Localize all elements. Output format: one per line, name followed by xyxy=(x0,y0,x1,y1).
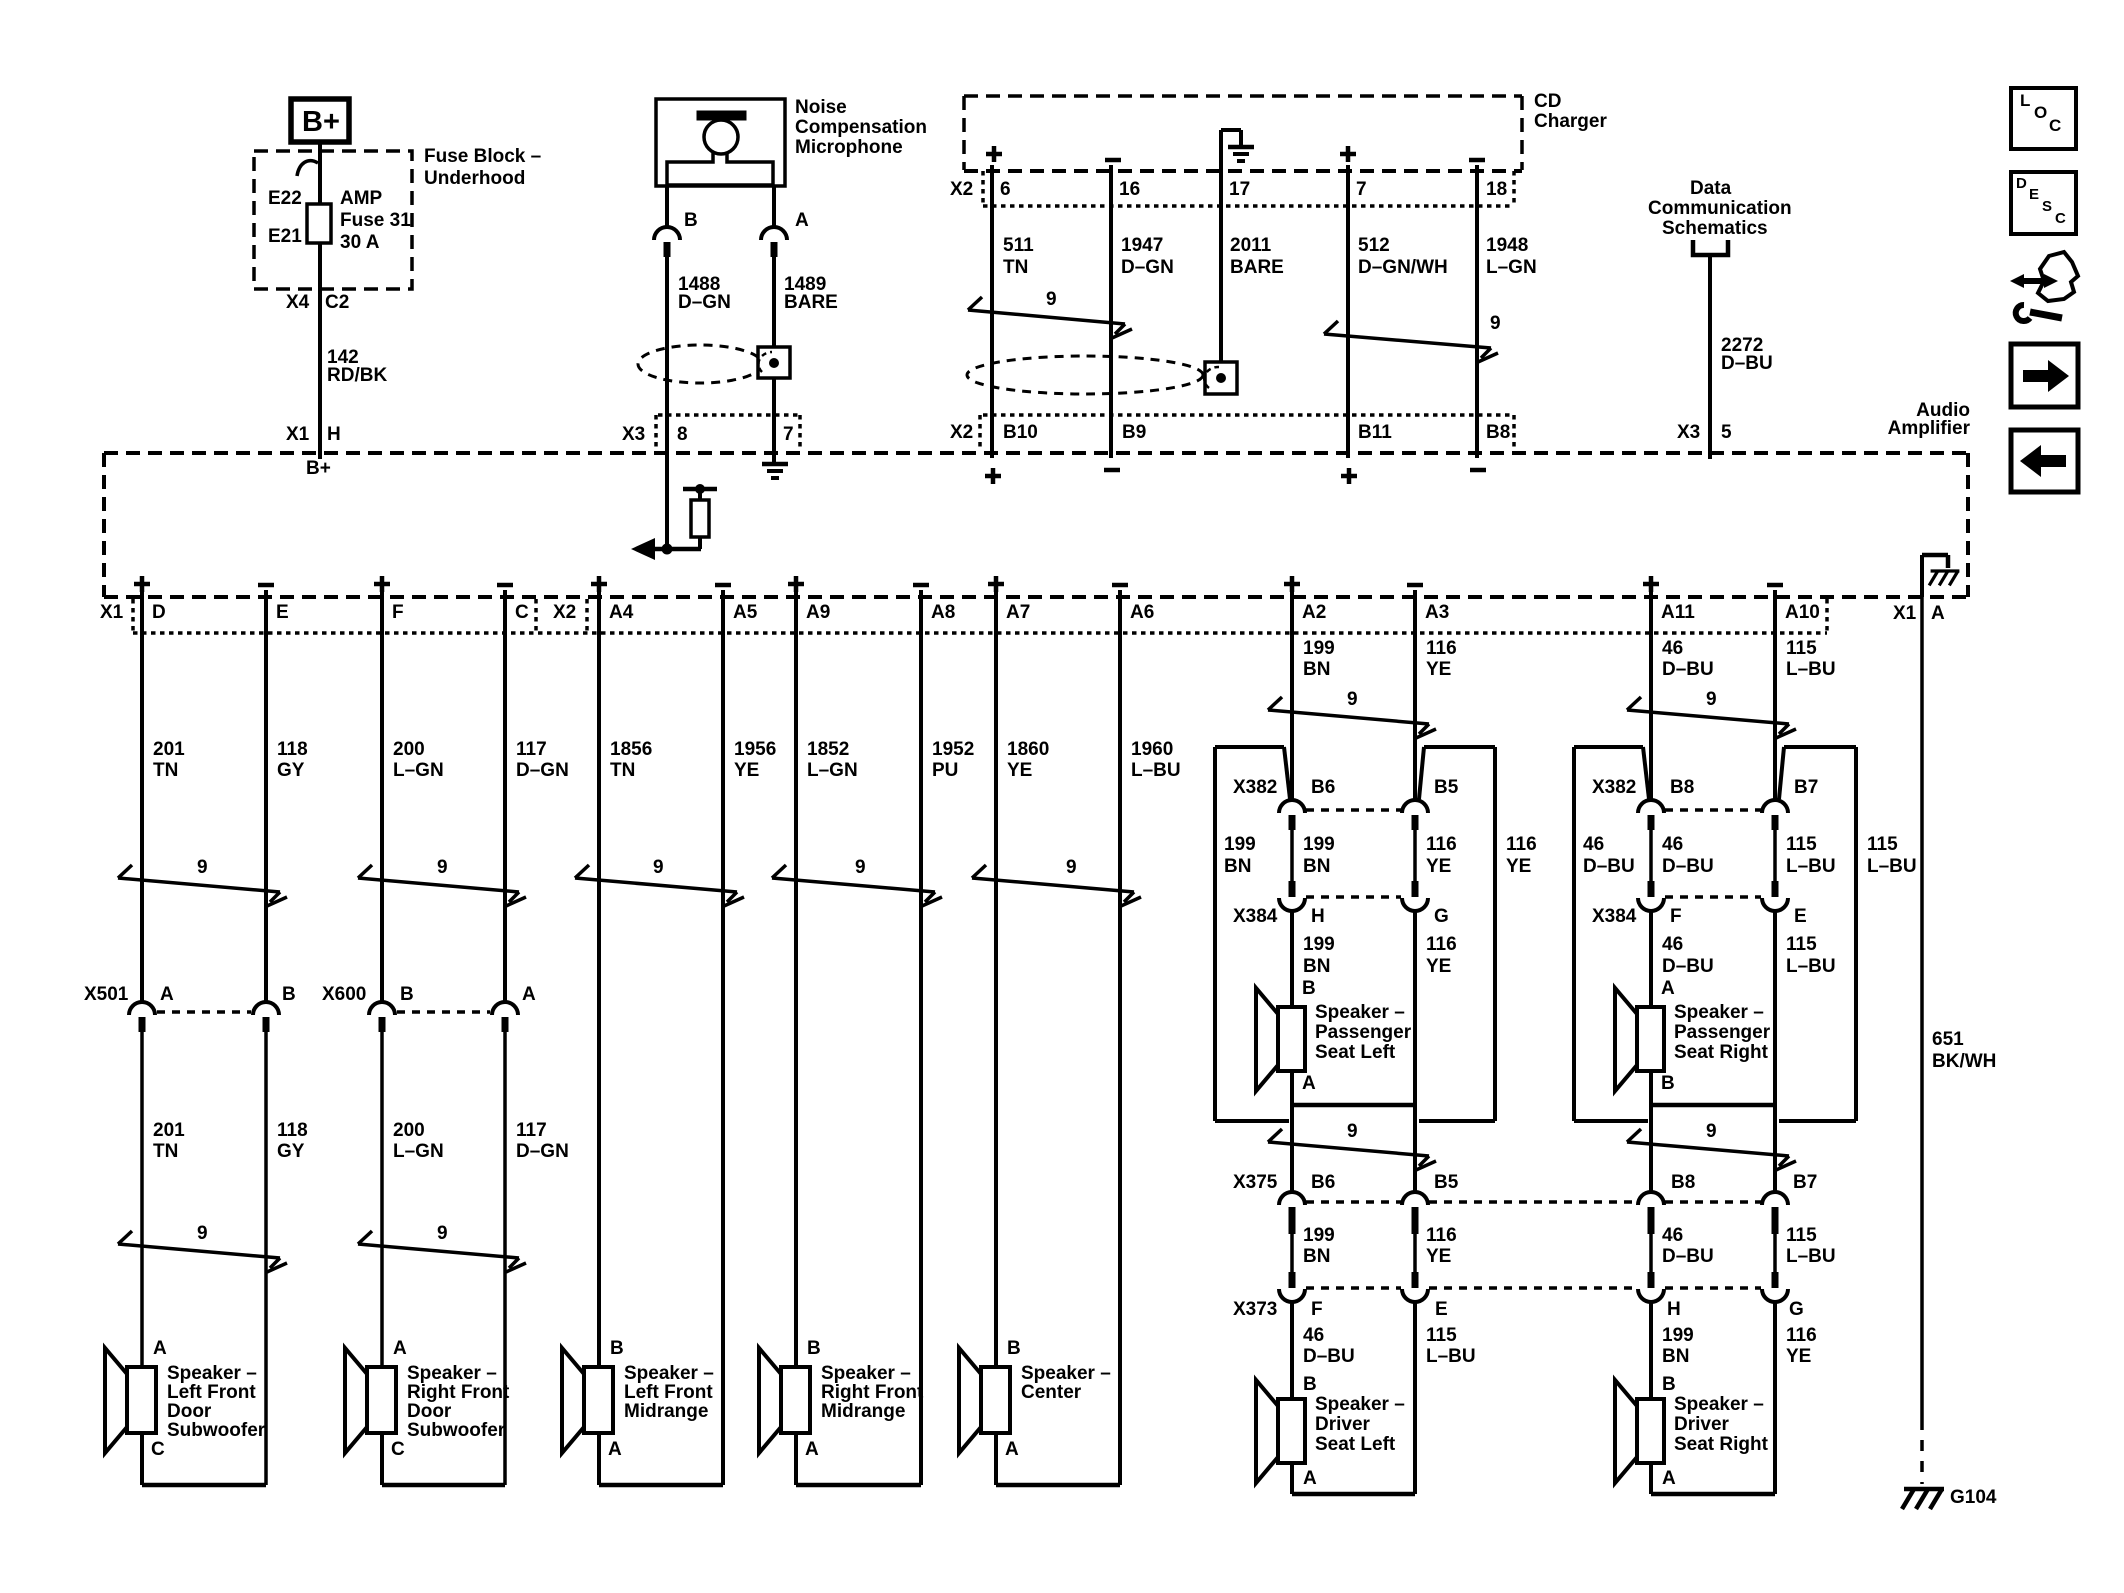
svg-text:X1: X1 xyxy=(100,602,124,623)
microphone element bar xyxy=(697,111,746,120)
wire 1860 YE xyxy=(994,636,998,1367)
svg-text:BN: BN xyxy=(1303,1246,1330,1267)
cable marker 9 on 46/115 xyxy=(1627,710,1789,724)
svg-text:115: 115 xyxy=(1786,834,1817,855)
svg-text:YE: YE xyxy=(1506,856,1531,877)
svg-text:Driver: Driver xyxy=(1315,1414,1371,1435)
svg-text:X375: X375 xyxy=(1233,1172,1278,1193)
speaker box Passenger Seat Left xyxy=(1213,747,1217,1121)
svg-text:117: 117 xyxy=(516,739,547,760)
svg-text:9: 9 xyxy=(1706,689,1717,710)
svg-text:Door: Door xyxy=(167,1401,212,1422)
wire stub at amplifier pin A7 xyxy=(994,590,998,640)
svg-text:199: 199 xyxy=(1303,1225,1335,1246)
svg-text:511: 511 xyxy=(1003,235,1034,256)
svg-text:115: 115 xyxy=(1786,1225,1817,1246)
svg-text:B+: B+ xyxy=(302,106,340,138)
wire 1952 PU xyxy=(919,636,923,1485)
svg-text:A: A xyxy=(795,210,809,231)
svg-text:A10: A10 xyxy=(1785,602,1820,623)
svg-text:D–GN: D–GN xyxy=(1121,257,1174,278)
svg-text:B5: B5 xyxy=(1434,1172,1459,1193)
svg-text:H: H xyxy=(327,424,341,445)
wire stub at amplifier pin A9 xyxy=(794,590,798,640)
svg-text:L–BU: L–BU xyxy=(1786,956,1836,977)
power feed B+ box xyxy=(291,99,349,142)
svg-text:A2: A2 xyxy=(1302,602,1326,623)
microphone element circle xyxy=(704,120,738,154)
svg-text:BN: BN xyxy=(1662,1346,1689,1367)
connector X384 pins H G xyxy=(1289,881,1296,897)
svg-text:1948: 1948 xyxy=(1486,235,1528,256)
svg-text:116: 116 xyxy=(1426,638,1457,659)
svg-text:E: E xyxy=(276,602,289,623)
connector X375 terminal B5 xyxy=(1402,1192,1428,1205)
svg-text:Schematics: Schematics xyxy=(1662,218,1768,239)
svg-text:D: D xyxy=(152,602,166,623)
svg-text:TN: TN xyxy=(610,760,635,781)
svg-text:L–BU: L–BU xyxy=(1786,1246,1836,1267)
wire between X375 and X373 xyxy=(1649,1234,1653,1272)
svg-text:18: 18 xyxy=(1486,179,1507,200)
svg-text:116: 116 xyxy=(1786,1325,1817,1346)
cable marker 9 below passenger seat left xyxy=(1268,1142,1429,1156)
wire between X375 and X373 xyxy=(1413,1234,1417,1272)
svg-text:Midrange: Midrange xyxy=(624,1401,708,1422)
bias resistor inside amplifier xyxy=(698,537,702,549)
wire 1947 D-GN pin 16 to B9 xyxy=(1109,165,1113,458)
svg-text:YE: YE xyxy=(1007,760,1032,781)
svg-text:D–GN: D–GN xyxy=(516,760,569,781)
svg-text:BN: BN xyxy=(1303,856,1330,877)
speaker Speaker – Left Front Door Subwoofer xyxy=(127,1367,156,1433)
connector X2 row at CD charger xyxy=(964,169,1522,173)
svg-text:Subwoofer: Subwoofer xyxy=(167,1420,266,1441)
svg-text:B5: B5 xyxy=(1434,777,1459,798)
polarity + at amplifier output D xyxy=(134,582,150,587)
shield ellipse around mic pair xyxy=(638,345,762,383)
svg-text:5: 5 xyxy=(1721,422,1732,443)
svg-text:X1: X1 xyxy=(286,424,310,445)
wire 1852 L–GN xyxy=(794,636,798,1367)
wire stub at amplifier pin A5 xyxy=(721,590,725,640)
wire stub at amplifier pin C xyxy=(503,590,507,640)
connector X373 terminal G xyxy=(1772,1272,1779,1288)
svg-text:201: 201 xyxy=(153,739,185,760)
svg-text:Left Front: Left Front xyxy=(167,1382,256,1403)
svg-text:1860: 1860 xyxy=(1007,739,1049,760)
connector X373 terminal H xyxy=(1648,1272,1655,1288)
svg-text:A: A xyxy=(1662,1468,1676,1489)
wire 200 L–GN xyxy=(380,636,384,1003)
wire stub at amplifier pin D xyxy=(140,590,144,640)
svg-text:199: 199 xyxy=(1224,834,1256,855)
polarity - at amplifier output A10 xyxy=(1767,583,1783,588)
svg-text:L–BU: L–BU xyxy=(1867,856,1917,877)
svg-text:X2: X2 xyxy=(553,602,576,623)
svg-text:200: 200 xyxy=(393,739,425,760)
svg-text:1956: 1956 xyxy=(734,739,776,760)
cable marker 9 row lower xyxy=(118,1244,280,1258)
svg-text:L–BU: L–BU xyxy=(1786,856,1836,877)
connector X375 terminal B7 xyxy=(1762,1192,1788,1205)
svg-text:BN: BN xyxy=(1303,956,1330,977)
wire 1488 D-GN xyxy=(665,257,669,549)
connector X2 row at amplifier B10 B9 B11 B8 xyxy=(983,413,1514,417)
svg-text:B11: B11 xyxy=(1358,422,1392,443)
microphone stand xyxy=(667,153,773,185)
svg-text:B: B xyxy=(400,984,414,1005)
speaker element xyxy=(1278,1399,1305,1463)
svg-text:199: 199 xyxy=(1303,934,1335,955)
svg-text:9: 9 xyxy=(1347,689,1358,710)
svg-text:Seat Left: Seat Left xyxy=(1315,1042,1396,1063)
svg-text:9: 9 xyxy=(1046,289,1057,310)
svg-text:Speaker –: Speaker – xyxy=(1021,1363,1111,1384)
svg-text:X2: X2 xyxy=(950,422,973,443)
svg-text:Right Front: Right Front xyxy=(821,1382,924,1403)
svg-text:115: 115 xyxy=(1426,1325,1457,1346)
svg-text:1856: 1856 xyxy=(610,739,652,760)
svg-text:A: A xyxy=(608,1439,622,1460)
svg-text:C: C xyxy=(2049,116,2061,135)
svg-text:X2: X2 xyxy=(950,179,973,200)
svg-text:B: B xyxy=(1662,1374,1676,1395)
svg-text:A: A xyxy=(153,1338,167,1359)
svg-text:D–BU: D–BU xyxy=(1662,856,1714,877)
svg-text:Seat Left: Seat Left xyxy=(1315,1434,1396,1455)
svg-text:118: 118 xyxy=(277,739,308,760)
svg-text:D–BU: D–BU xyxy=(1303,1346,1355,1367)
svg-text:B7: B7 xyxy=(1793,1172,1817,1193)
wire stub at amplifier pin A3 xyxy=(1413,590,1417,640)
svg-text:9: 9 xyxy=(437,857,448,878)
svg-text:46: 46 xyxy=(1583,834,1604,855)
svg-text:200: 200 xyxy=(393,1120,425,1141)
svg-text:7: 7 xyxy=(1356,179,1367,200)
wire 115 L-BU from A10 xyxy=(1773,636,1777,801)
svg-text:G: G xyxy=(1789,1299,1804,1320)
svg-text:A: A xyxy=(1302,1073,1316,1094)
svg-text:Subwoofer: Subwoofer xyxy=(407,1420,506,1441)
speaker element xyxy=(1278,1007,1305,1071)
svg-text:1852: 1852 xyxy=(807,739,849,760)
svg-text:Midrange: Midrange xyxy=(821,1401,905,1422)
svg-text:A7: A7 xyxy=(1006,602,1030,623)
shield ellipse around CD charger pair xyxy=(967,356,1203,394)
wires below X501/X600 xyxy=(140,1032,144,1367)
svg-text:Speaker –: Speaker – xyxy=(167,1363,257,1384)
svg-text:116: 116 xyxy=(1426,1225,1457,1246)
wire 142 RD/BK from fuse to amplifier X1-H xyxy=(318,243,322,459)
wire from B+ to fuse xyxy=(318,142,322,205)
speaker Speaker – Center xyxy=(981,1367,1010,1433)
connector row X1/X2 labels at amplifier bottom xyxy=(133,631,1827,635)
svg-text:C2: C2 xyxy=(325,292,349,313)
LOC icon box xyxy=(2011,88,2076,149)
svg-text:Door: Door xyxy=(407,1401,452,1422)
svg-text:E22: E22 xyxy=(268,188,302,209)
wire 512 D-GN/WH pin 7 to B11 xyxy=(1346,165,1350,458)
connector X382 pins B6 B5 xyxy=(1279,800,1305,813)
svg-text:A4: A4 xyxy=(609,602,634,623)
svg-text:YE: YE xyxy=(734,760,759,781)
svg-text:A11: A11 xyxy=(1661,602,1695,623)
svg-text:B6: B6 xyxy=(1311,777,1335,798)
svg-text:6: 6 xyxy=(1000,179,1011,200)
svg-text:X600: X600 xyxy=(322,984,366,1005)
polarity - at amplifier output A3 xyxy=(1407,583,1423,588)
inline connector X600 xyxy=(369,1002,395,1015)
inline connector X501 xyxy=(129,1002,155,1015)
wires from X384 to speaker xyxy=(1290,910,1294,1007)
svg-text:D–BU: D–BU xyxy=(1662,659,1714,680)
svg-text:Amplifier: Amplifier xyxy=(1888,418,1971,439)
svg-text:S: S xyxy=(2042,198,2052,215)
svg-text:46: 46 xyxy=(1662,834,1683,855)
wire 1956 YE xyxy=(721,636,725,1485)
svg-text:B6: B6 xyxy=(1311,1172,1335,1193)
speaker circuit bottom xyxy=(1649,1463,1653,1494)
cable marker 9 below passenger seat right xyxy=(1627,1142,1789,1156)
svg-text:A3: A3 xyxy=(1425,602,1449,623)
wire stub at amplifier pin A11 xyxy=(1649,590,1653,640)
connector X382 pins B8 B7 xyxy=(1638,800,1664,813)
svg-text:X1: X1 xyxy=(1893,603,1917,624)
svg-text:B7: B7 xyxy=(1794,777,1818,798)
wire 1960 L–BU xyxy=(1118,636,1122,1485)
svg-text:D–BU: D–BU xyxy=(1721,353,1773,374)
svg-text:Right Front: Right Front xyxy=(407,1382,510,1403)
svg-text:B8: B8 xyxy=(1486,422,1510,443)
wires between X382 and X384 xyxy=(1290,830,1294,882)
fuse clip hook E22 xyxy=(297,161,318,176)
svg-text:F: F xyxy=(1311,1299,1323,1320)
connector X375 terminal B6 xyxy=(1279,1192,1305,1205)
svg-text:D–BU: D–BU xyxy=(1662,1246,1714,1267)
svg-text:L–BU: L–BU xyxy=(1426,1346,1476,1367)
svg-text:L–BU: L–BU xyxy=(1131,760,1181,781)
svg-text:9: 9 xyxy=(653,857,664,878)
CD charger dashed box xyxy=(964,94,1522,98)
svg-text:E: E xyxy=(2029,186,2039,203)
wire 201 TN xyxy=(140,636,144,1003)
svg-text:46: 46 xyxy=(1662,638,1683,659)
svg-text:Seat Right: Seat Right xyxy=(1674,1042,1769,1063)
svg-text:Microphone: Microphone xyxy=(795,137,903,158)
back arrow icon box xyxy=(2011,430,2078,492)
svg-text:A: A xyxy=(393,1338,407,1359)
svg-text:46: 46 xyxy=(1662,1225,1683,1246)
svg-text:A9: A9 xyxy=(806,602,830,623)
wire 511 TN pin 6 to B10 xyxy=(990,165,994,458)
wire stub at amplifier pin A10 xyxy=(1773,590,1777,640)
svg-text:A: A xyxy=(522,984,536,1005)
svg-text:116: 116 xyxy=(1506,834,1537,855)
svg-text:TN: TN xyxy=(153,760,178,781)
shield termination box on 2011 xyxy=(1205,362,1237,394)
cable marker 9 row upper xyxy=(118,878,280,892)
svg-text:E: E xyxy=(1794,906,1807,927)
svg-text:GY: GY xyxy=(277,1141,305,1162)
svg-text:D–BU: D–BU xyxy=(1662,956,1714,977)
noise compensation microphone box xyxy=(656,99,785,186)
wire 116 YE from A3 xyxy=(1413,636,1417,801)
wire stub at amplifier pin A4 xyxy=(597,590,601,640)
svg-text:BARE: BARE xyxy=(1230,257,1284,278)
speaker circuit bottom xyxy=(1649,1071,1653,1105)
svg-text:9: 9 xyxy=(197,1223,208,1244)
diagnostic wrench icon xyxy=(2038,252,2078,301)
svg-text:B: B xyxy=(1661,1073,1675,1094)
wire between X375 and X373 xyxy=(1290,1234,1294,1272)
speaker element xyxy=(1637,1007,1664,1071)
svg-text:B+: B+ xyxy=(306,458,331,479)
svg-text:Speaker –: Speaker – xyxy=(1674,1002,1764,1023)
svg-text:Speaker –: Speaker – xyxy=(407,1363,497,1384)
svg-text:B9: B9 xyxy=(1122,422,1146,443)
polarity + at amplifier output A9 xyxy=(788,582,804,587)
svg-text:C: C xyxy=(151,1439,165,1460)
svg-text:B: B xyxy=(1007,1338,1021,1359)
svg-text:BN: BN xyxy=(1224,856,1251,877)
svg-text:B10: B10 xyxy=(1003,422,1038,443)
speaker Speaker – Right Front Midrange xyxy=(781,1367,810,1433)
svg-text:F: F xyxy=(392,602,404,623)
shield termination box on 1489 xyxy=(758,347,790,378)
wires from X384 to speaker xyxy=(1649,910,1653,1007)
wire stub at amplifier pin A8 xyxy=(919,590,923,640)
svg-text:CD: CD xyxy=(1534,91,1561,112)
svg-text:46: 46 xyxy=(1662,934,1683,955)
svg-text:D: D xyxy=(2016,175,2027,192)
svg-text:9: 9 xyxy=(1347,1121,1358,1142)
speaker element xyxy=(1637,1399,1664,1463)
svg-text:TN: TN xyxy=(153,1141,178,1162)
svg-text:16: 16 xyxy=(1119,179,1140,200)
svg-text:Fuse 31: Fuse 31 xyxy=(340,210,411,231)
polarity marks inside amplifier below X2 xyxy=(985,474,1001,479)
wire between X375 and X373 xyxy=(1773,1234,1777,1272)
svg-text:TN: TN xyxy=(1003,257,1028,278)
fuse AMP Fuse 31 30A xyxy=(307,204,331,243)
svg-text:Communication: Communication xyxy=(1648,198,1792,219)
svg-text:G104: G104 xyxy=(1950,1487,1997,1508)
wire stub at amplifier pin A2 xyxy=(1290,590,1294,640)
svg-text:B: B xyxy=(807,1338,821,1359)
polarity - at amplifier output E xyxy=(258,583,274,588)
polarity + at amplifier output A4 xyxy=(591,582,607,587)
svg-text:B: B xyxy=(1302,978,1316,999)
svg-text:YE: YE xyxy=(1426,659,1451,680)
svg-text:X4: X4 xyxy=(286,292,310,313)
svg-text:115: 115 xyxy=(1786,638,1817,659)
mic wire to terminal B xyxy=(665,186,669,228)
polarity + at amplifier output F xyxy=(374,582,390,587)
svg-text:O: O xyxy=(2034,103,2047,122)
svg-text:X382: X382 xyxy=(1233,777,1277,798)
svg-text:B: B xyxy=(282,984,296,1005)
wire 1489 BARE shield drain xyxy=(772,257,776,462)
svg-text:X3: X3 xyxy=(622,424,645,445)
svg-text:Charger: Charger xyxy=(1534,111,1607,132)
speaker circuit bottom xyxy=(1290,1071,1294,1105)
svg-text:H: H xyxy=(1667,1299,1681,1320)
svg-text:Speaker –: Speaker – xyxy=(624,1363,714,1384)
svg-text:199: 199 xyxy=(1303,638,1335,659)
svg-text:Speaker –: Speaker – xyxy=(1674,1394,1764,1415)
svg-text:9: 9 xyxy=(1490,313,1501,334)
svg-text:B: B xyxy=(610,1338,624,1359)
ground symbol on pin 7 inside amplifier xyxy=(762,462,788,467)
svg-text:117: 117 xyxy=(516,1120,547,1141)
pass-through wires to rear connectors xyxy=(1649,1105,1653,1192)
svg-text:G: G xyxy=(1434,906,1449,927)
amplifier internal ground to X1-A xyxy=(1920,555,1924,597)
svg-text:L–GN: L–GN xyxy=(1486,257,1537,278)
svg-text:115: 115 xyxy=(1867,834,1898,855)
DESC icon box xyxy=(2011,172,2076,234)
polarity - at amplifier output A5 xyxy=(715,583,731,588)
polarity - at amplifier output A8 xyxy=(913,583,929,588)
svg-text:B8: B8 xyxy=(1670,777,1694,798)
connector X373 terminal F xyxy=(1289,1272,1296,1288)
svg-text:PU: PU xyxy=(932,760,958,781)
svg-text:X382: X382 xyxy=(1592,777,1636,798)
svg-text:GY: GY xyxy=(277,760,305,781)
svg-text:Passenger: Passenger xyxy=(1315,1022,1412,1043)
svg-text:B8: B8 xyxy=(1671,1172,1695,1193)
svg-text:D–GN: D–GN xyxy=(516,1141,569,1162)
svg-text:8: 8 xyxy=(677,424,688,445)
svg-text:7: 7 xyxy=(783,424,794,445)
svg-text:A: A xyxy=(1303,1468,1317,1489)
svg-text:Underhood: Underhood xyxy=(424,168,525,189)
connector X375 terminal B8 xyxy=(1638,1192,1664,1205)
svg-text:118: 118 xyxy=(277,1120,308,1141)
wires between X382 and X384 xyxy=(1649,830,1653,882)
svg-text:17: 17 xyxy=(1229,179,1250,200)
speaker Speaker – Right Front Door Subwoofer xyxy=(367,1367,396,1433)
svg-text:9: 9 xyxy=(437,1223,448,1244)
wire stub at amplifier pin A6 xyxy=(1118,590,1122,640)
signal arrow to left inside amplifier xyxy=(631,538,655,560)
svg-text:L–GN: L–GN xyxy=(393,1141,444,1162)
cable marker 9 on 512/1948 pair xyxy=(1324,334,1491,348)
svg-text:Center: Center xyxy=(1021,1382,1082,1403)
svg-text:AMP: AMP xyxy=(340,188,383,209)
forward arrow icon box xyxy=(2011,344,2078,407)
svg-text:A: A xyxy=(160,984,174,1005)
svg-text:YE: YE xyxy=(1426,1246,1451,1267)
svg-text:A: A xyxy=(805,1439,819,1460)
svg-text:Driver: Driver xyxy=(1674,1414,1730,1435)
svg-text:A5: A5 xyxy=(733,602,758,623)
svg-text:L: L xyxy=(2020,91,2030,110)
svg-text:199: 199 xyxy=(1303,834,1335,855)
svg-text:B: B xyxy=(1303,1374,1317,1395)
speaker Speaker – Left Front Midrange xyxy=(584,1367,613,1433)
cable marker 9 on 199/116 xyxy=(1268,710,1429,724)
svg-text:E21: E21 xyxy=(268,226,302,247)
svg-text:D–BU: D–BU xyxy=(1583,856,1635,877)
svg-text:Passenger: Passenger xyxy=(1674,1022,1771,1043)
svg-text:YE: YE xyxy=(1426,956,1451,977)
svg-text:L–GN: L–GN xyxy=(807,760,858,781)
pass-through wires to rear connectors xyxy=(1290,1105,1294,1192)
svg-text:X384: X384 xyxy=(1233,906,1278,927)
svg-text:Left Front: Left Front xyxy=(624,1382,713,1403)
